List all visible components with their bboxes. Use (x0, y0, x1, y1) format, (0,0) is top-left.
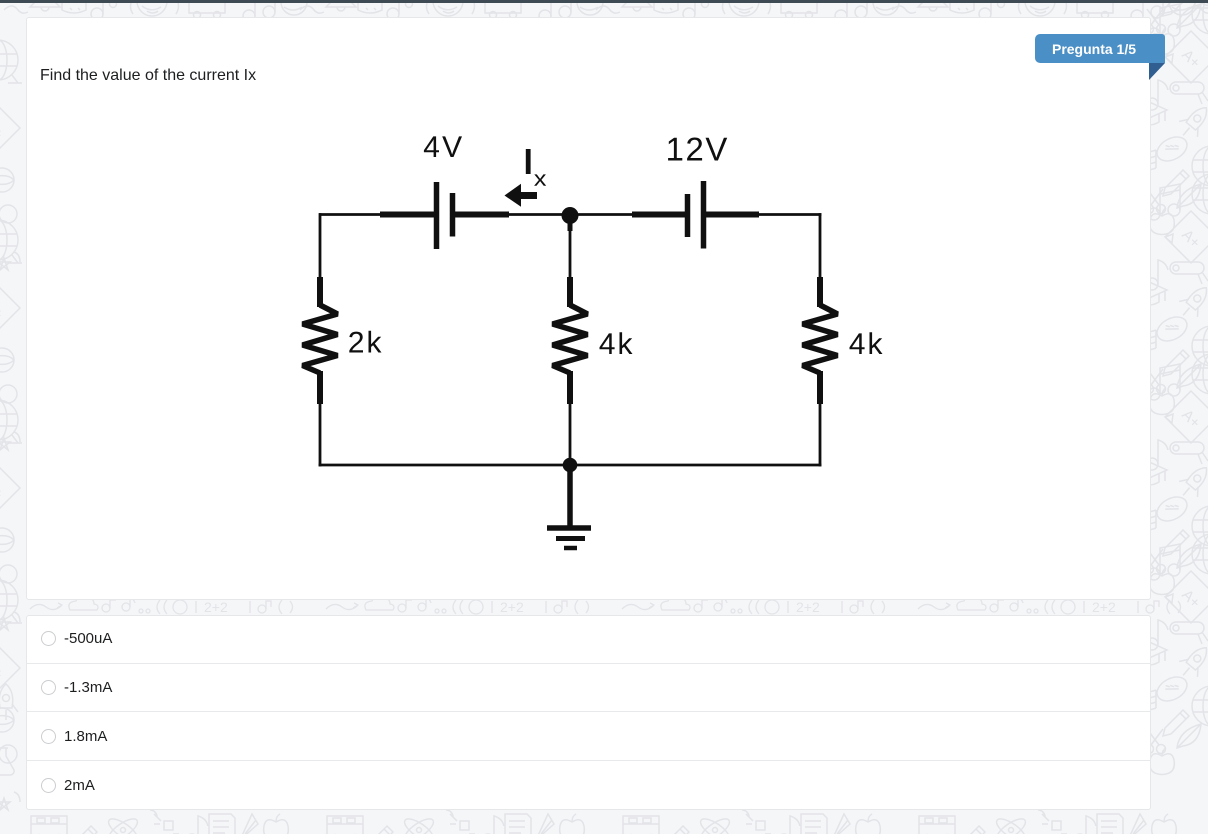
label Ix (526, 149, 546, 186)
left strip doodles (0, 40, 22, 270)
resistor R3 4k (right) (803, 277, 838, 404)
label 4k (middle) (600, 332, 633, 354)
wire: right vertical from corner down to R3 (819, 213, 822, 278)
wire: R1 to bottom-left corner (319, 403, 322, 466)
svg-text:2+2: 2+2 (204, 599, 228, 615)
wire: R2 to node B (569, 403, 572, 465)
wire: node A down to R2 (568, 215, 573, 278)
wire: left vertical from top-left corner down to R1 (319, 213, 322, 278)
label 2k (349, 331, 381, 353)
question card (26, 17, 1151, 600)
wire: bottom left segment (319, 464, 570, 467)
top strip doodles (bottom halves visible) (4, 0, 307, 22)
wire: node A to 12V battery (570, 213, 686, 216)
label 4k (right) (850, 332, 883, 354)
current arrow Ix (505, 184, 538, 207)
question ribbon Pregunta 1/5 (1035, 34, 1165, 63)
battery V2 12V (688, 181, 704, 249)
right strip doodles (5 vertical repeats) (1131, 0, 1208, 235)
wire: 4V battery to node A (455, 212, 570, 218)
wire: bottom right segment (570, 464, 821, 467)
wire: 12V battery to top-right corner (706, 212, 821, 218)
ribbon fold (1149, 63, 1165, 80)
label 12V (668, 138, 727, 161)
wire: top-left corner to 4V battery (319, 213, 436, 216)
node A (top junction) (562, 207, 579, 224)
bottom strip doodles (top halves visible) (31, 810, 288, 834)
gap strip doodles (between cards) (30, 597, 293, 615)
resistor R1 2k (left) (303, 277, 338, 404)
node B (bottom junction, ground node) (563, 458, 578, 473)
resistor R2 4k (middle) (553, 277, 588, 404)
answer options (26, 615, 1151, 810)
label 4V (424, 136, 462, 157)
battery V1 4V (437, 182, 453, 249)
wire: R3 to bottom-right corner (819, 403, 822, 466)
ground (547, 465, 591, 548)
top bar (0, 0, 1208, 3)
